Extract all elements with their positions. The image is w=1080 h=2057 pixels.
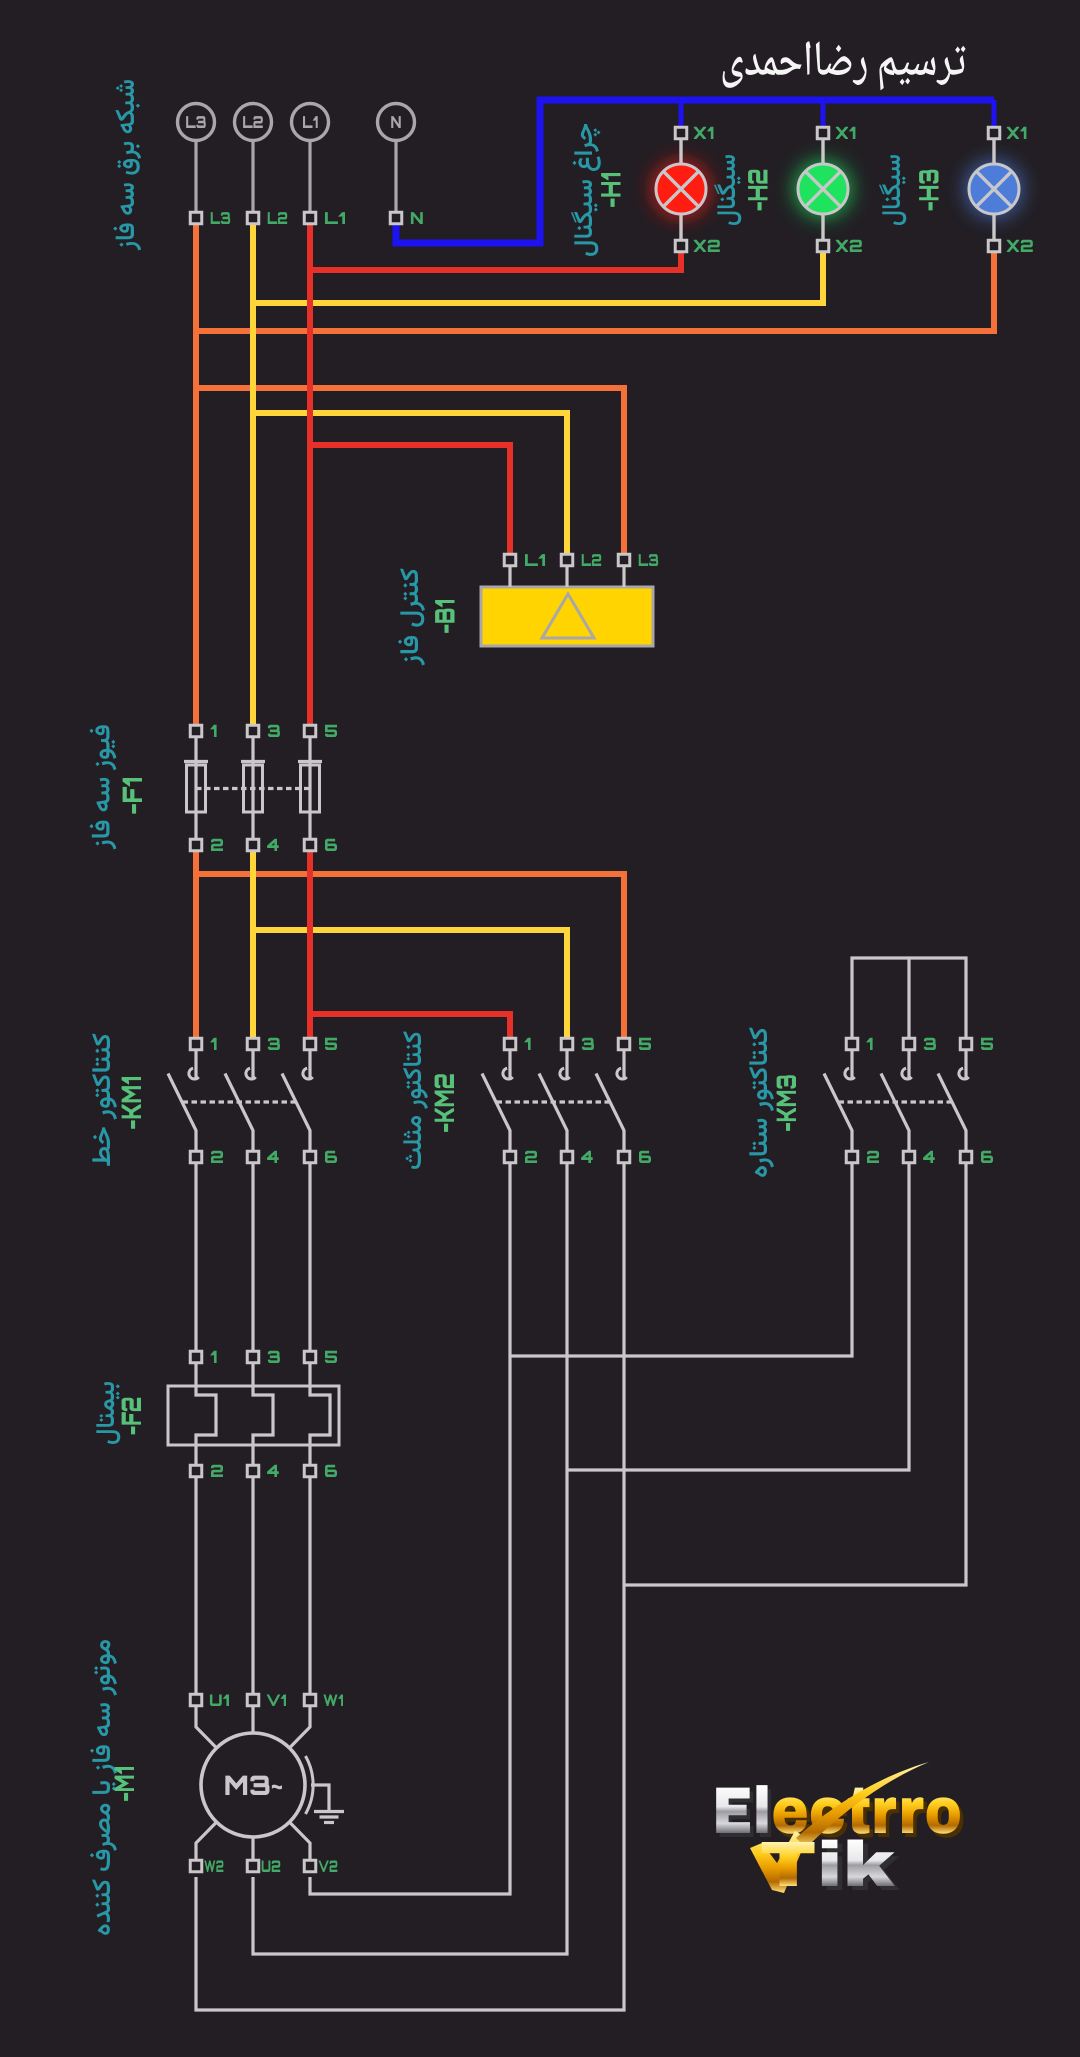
fuse F1 pole 3 <box>308 737 311 839</box>
B1 terminal L3 <box>618 554 630 566</box>
F1 terminal 5 <box>304 725 316 737</box>
wire KM3-2 to node <box>510 1163 852 1356</box>
wire N blue bus <box>396 100 994 243</box>
label -M1 <box>115 1767 134 1801</box>
wire KM1 to F2 <box>194 1163 197 1351</box>
supply terminal circle L1 <box>292 104 329 141</box>
label -KM2 <box>435 1074 454 1132</box>
KM1 terminal 4 <box>247 1151 259 1163</box>
KM1 terminal 2 <box>190 1151 202 1163</box>
node L3 terminal <box>190 212 202 224</box>
label three-phase fuse <box>89 725 116 849</box>
node L2 terminal <box>247 212 259 224</box>
wire L3 circle lead <box>194 140 197 212</box>
F2 terminal 6 <box>304 1465 316 1477</box>
contactor KM2 pole 3 <box>622 1050 625 1080</box>
overload F2 heater 2 <box>253 1363 273 1465</box>
wire KM3-4 to node <box>567 1163 909 1470</box>
label -H2 <box>748 170 767 211</box>
wire KM1 to F2 <box>251 1163 254 1351</box>
wire F2 to motor <box>308 1477 311 1694</box>
wire orange branch to B1 L3 <box>196 388 624 554</box>
lamp H1 terminal X2 <box>675 240 687 252</box>
supply terminal circle L2 <box>235 104 272 141</box>
wire orange F1-2 to KM1-1 <box>193 851 199 1038</box>
label signal H2 <box>714 155 741 225</box>
contactor KM1 linkage <box>183 1100 296 1103</box>
wire L2 circle lead <box>251 140 254 212</box>
node N terminal <box>390 212 402 224</box>
logo check swoosh <box>750 1831 807 1893</box>
B1 lead L3 <box>622 566 625 587</box>
supply terminal circle N <box>378 104 415 141</box>
label signal H3 <box>879 155 906 225</box>
KM2 terminal 1 <box>504 1038 516 1050</box>
lamp H2 <box>796 162 850 216</box>
lamp H1 <box>654 162 708 216</box>
label -KM1 <box>122 1077 141 1129</box>
F2 terminal 2 <box>190 1465 202 1477</box>
label signal lamp H1 <box>571 124 601 256</box>
motor M1 leads <box>196 1706 217 1748</box>
F1 terminal 3 <box>247 725 259 737</box>
label -F2 <box>122 1398 141 1435</box>
contactor KM2 pole 2 <box>565 1050 568 1080</box>
wire red branch to B1 L1 <box>310 445 510 554</box>
motor M1 body <box>201 1733 305 1837</box>
wire KM3 star bridge <box>852 958 966 1038</box>
label -KM3 <box>777 1075 796 1131</box>
fuse F1 link dashes <box>196 787 310 790</box>
motor terminal U2 <box>247 1860 259 1872</box>
lamp H1 terminal X1 <box>675 127 687 139</box>
B1 terminal L2 <box>561 554 573 566</box>
contactor KM1 pole 1 <box>194 1050 197 1080</box>
contactor KM2 linkage <box>497 1100 610 1103</box>
label star contactor <box>749 1028 774 1177</box>
title drawn by Reza Ahmadi <box>723 41 966 90</box>
contactor KM2 pole 1 <box>508 1050 511 1080</box>
motor terminal W1 <box>304 1694 316 1706</box>
contactor KM3 linkage <box>839 1100 952 1103</box>
label motor <box>90 1640 117 1935</box>
supply terminal circle L3 <box>178 104 215 141</box>
wire F2 to motor <box>194 1477 197 1694</box>
phase control triangle <box>542 594 594 638</box>
KM1 terminal 6 <box>304 1151 316 1163</box>
overload F2 heater 3 <box>310 1363 330 1465</box>
KM2 terminal 4 <box>561 1151 573 1163</box>
KM1 terminal 5 <box>304 1038 316 1050</box>
KM2 terminal 3 <box>561 1038 573 1050</box>
overload F2 heater 1 <box>196 1363 216 1465</box>
wire KM2-2 to V2 <box>310 1163 510 1894</box>
F2 terminal 5 <box>304 1351 316 1363</box>
label -F1 <box>123 778 142 814</box>
KM2 terminal 5 <box>618 1038 630 1050</box>
F1 terminal 6 <box>304 839 316 851</box>
overload relay F2 box <box>168 1386 339 1445</box>
wire red branch to KM2-1 <box>310 1014 510 1038</box>
lamp H3 terminal X1 <box>988 127 1000 139</box>
label -B1 <box>435 600 454 633</box>
wire KM2-4 to U2 <box>253 1163 567 1954</box>
ground symbol <box>311 1785 329 1810</box>
wire orange branch to H3 X2 <box>196 252 994 331</box>
wire yellow branch to B1 L2 <box>253 413 567 554</box>
motor frame arc <box>306 1756 314 1814</box>
F1 terminal 4 <box>247 839 259 851</box>
contactor KM3 pole 2 <box>907 1050 910 1080</box>
lamp H2 terminal X2 <box>817 240 829 252</box>
contactor KM1 pole 3 <box>308 1050 311 1080</box>
wire L3 orange main <box>193 224 199 725</box>
KM2 terminal 6 <box>618 1151 630 1163</box>
wire F2 to motor <box>251 1477 254 1694</box>
label phase control <box>398 569 425 666</box>
KM3 terminal 2 <box>846 1151 858 1163</box>
wire yellow branch to H2 X2 <box>253 252 823 303</box>
KM1 terminal 3 <box>247 1038 259 1050</box>
motor terminal U1 <box>190 1694 202 1706</box>
wire orange branch to KM2-5 <box>196 874 624 1038</box>
KM3 terminal 6 <box>960 1151 972 1163</box>
ElectroTik logo <box>716 1785 963 1838</box>
wire N circle lead <box>394 140 397 212</box>
motor terminal V1 <box>247 1694 259 1706</box>
wire blue stub H1 X1 <box>679 100 684 127</box>
wire red F1-6 to KM1-5 <box>307 851 313 1038</box>
KM3 terminal 5 <box>960 1038 972 1050</box>
F2 terminal 3 <box>247 1351 259 1363</box>
KM3 terminal 1 <box>846 1038 858 1050</box>
motor terminal V2 <box>304 1860 316 1872</box>
B1 lead L2 <box>565 566 568 587</box>
label delta contactor <box>403 1032 428 1169</box>
lamp H3 <box>967 162 1021 216</box>
contactor KM1 pole 2 <box>251 1050 254 1080</box>
B1 lead L1 <box>508 566 511 587</box>
wire blue stub H3 X1 <box>992 100 997 127</box>
label line contactor <box>92 1034 117 1166</box>
lamp H2 terminal X1 <box>817 127 829 139</box>
F1 terminal 1 <box>190 725 202 737</box>
wire KM1 to F2 <box>308 1163 311 1351</box>
contactor KM3 pole 1 <box>850 1050 853 1080</box>
contactor KM3 pole 3 <box>964 1050 967 1080</box>
phase control relay B1 box <box>481 587 653 646</box>
F1 terminal 2 <box>190 839 202 851</box>
KM3 terminal 3 <box>903 1038 915 1050</box>
wire KM2-6 to W2 <box>196 1163 624 2010</box>
label -H3 <box>919 170 938 211</box>
wire L2 yellow main <box>250 224 256 725</box>
label bimetal <box>96 1382 120 1444</box>
label three-phase network <box>113 80 141 250</box>
wire L1 circle lead <box>308 140 311 212</box>
wire red branch to H1 X2 <box>310 252 681 270</box>
KM2 terminal 2 <box>504 1151 516 1163</box>
KM3 terminal 4 <box>903 1151 915 1163</box>
wire yellow F1-4 to KM1-3 <box>250 851 256 1038</box>
fuse F1 pole 2 <box>251 737 254 839</box>
KM1 terminal 1 <box>190 1038 202 1050</box>
wire L1 red main <box>307 224 313 725</box>
wire KM3-6 to node <box>624 1163 966 1585</box>
F2 terminal 4 <box>247 1465 259 1477</box>
fuse F1 pole 1 <box>194 737 197 839</box>
label -H1 <box>601 173 620 207</box>
F2 terminal 1 <box>190 1351 202 1363</box>
wire yellow branch to KM2-3 <box>253 930 567 1038</box>
lamp H3 terminal X2 <box>988 240 1000 252</box>
motor terminal W2 <box>190 1860 202 1872</box>
B1 terminal L1 <box>504 554 516 566</box>
wire blue stub H2 X1 <box>821 100 826 127</box>
node L1 terminal <box>304 212 316 224</box>
